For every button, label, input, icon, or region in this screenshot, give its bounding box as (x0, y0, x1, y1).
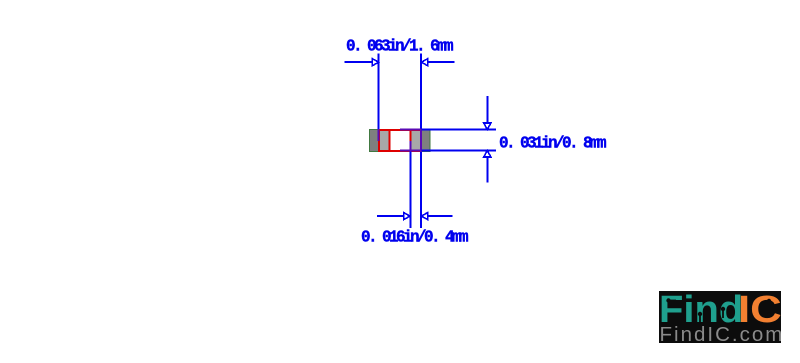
wire ext inner lower (410, 141, 412, 152)
dim text 0.031in/0.8mm (499, 135, 604, 152)
wire ext right top-dim (420, 53, 422, 129)
wire ext left top-dim (378, 53, 380, 129)
dim text 0.016in/0.4mm (361, 229, 466, 246)
wire ext 0.8mm bottom (400, 150, 422, 152)
wire ext left overlap (378, 129, 380, 141)
arrowhead right down (484, 123, 491, 129)
terminal line left (389, 130, 391, 152)
dim line top right (421, 61, 454, 63)
arrowhead top left (372, 59, 378, 66)
pad right (411, 130, 431, 152)
dim line right lower (486, 151, 488, 183)
dim line right upper (486, 96, 488, 129)
terminal line right (410, 130, 412, 142)
wire ext right overlap (420, 129, 422, 152)
dim line top left (344, 61, 378, 63)
arrowhead top right (421, 59, 427, 66)
FindIC logo (659, 291, 781, 343)
circuit dots decoration (659, 291, 781, 343)
component outline (379, 130, 421, 151)
component body fill (379, 130, 422, 152)
wire ext right lower (420, 152, 422, 228)
arrowhead bottom left (404, 213, 410, 220)
dim line bottom right (421, 215, 452, 217)
arrowhead right up (484, 151, 491, 157)
arrowhead bottom right (421, 213, 427, 220)
pad left (370, 130, 390, 152)
wire ext 0.8mm top (400, 128, 422, 130)
dim line bottom left (377, 215, 410, 217)
dim text 0.063in/1.6mm (346, 38, 451, 55)
